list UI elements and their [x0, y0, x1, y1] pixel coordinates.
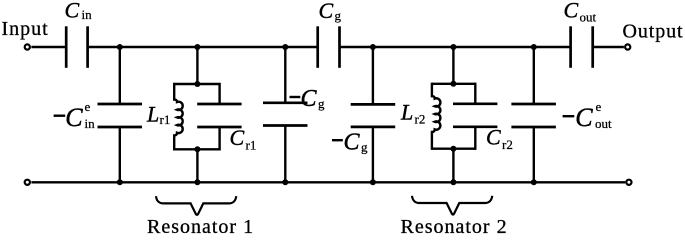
svg-text:r1: r1	[246, 138, 257, 153]
capacitor -C_in^e	[98, 104, 143, 127]
wire left -C_g branch lower	[284, 126, 286, 183]
inductor L_r1	[174, 83, 182, 151]
label C_r2	[486, 125, 513, 153]
node resonator 1 loop top	[194, 81, 200, 87]
wire resonator 2 right stub upper	[474, 83, 476, 104]
svg-text:Resonator 2: Resonator 2	[401, 216, 508, 236]
svg-text:e: e	[596, 99, 602, 114]
svg-text:C: C	[301, 86, 318, 112]
svg-text:in: in	[85, 116, 96, 131]
label C_g	[319, 0, 342, 23]
node top of left -C_g branch	[282, 44, 288, 50]
wire resonator 2 to bottom rail	[452, 149, 454, 183]
wire resonator 1 loop bottom	[174, 148, 219, 150]
node resonator 1 loop bottom	[194, 146, 200, 152]
svg-text:e: e	[85, 99, 91, 114]
wire -C_out branch lower	[533, 127, 535, 182]
svg-text:r2: r2	[502, 137, 513, 152]
label C_r1	[230, 125, 257, 153]
wire resonator 1 feed	[196, 47, 198, 84]
wire top rail C_in to C_g	[88, 46, 318, 48]
svg-text:L: L	[400, 100, 413, 125]
node top of -C_in branch	[117, 44, 123, 50]
wire resonator 1 loop top	[174, 83, 219, 85]
node bottom of -C_out branch	[531, 179, 537, 185]
svg-text:r2: r2	[415, 112, 426, 127]
label -C_g left	[290, 86, 326, 112]
svg-text:r1: r1	[160, 112, 171, 127]
capacitor -C_g right	[351, 104, 396, 127]
node top of resonator 1	[194, 44, 200, 50]
label -C_out^e	[563, 99, 612, 132]
wire resonator 1 right stub upper	[218, 83, 220, 104]
node resonator 1 bottom junction	[194, 179, 200, 185]
wire C_out to output	[593, 46, 624, 48]
capacitor C_r2	[453, 104, 497, 127]
brace resonator 2	[412, 196, 492, 215]
svg-text:C: C	[344, 130, 361, 156]
svg-text:C: C	[319, 0, 334, 23]
capacitor C_in	[66, 26, 87, 68]
terminal bottom-right node	[626, 180, 631, 185]
wire resonator 1 right stub lower	[218, 127, 220, 151]
wire bottom rail	[31, 181, 625, 183]
terminal bottom-left node	[25, 180, 30, 185]
svg-text:C: C	[230, 125, 245, 150]
node resonator 2 bottom junction	[450, 179, 456, 185]
svg-text:g: g	[318, 96, 325, 111]
wire -C_out branch upper	[533, 47, 535, 104]
label -C_in^e	[54, 99, 96, 132]
wire right -C_g branch upper	[372, 47, 374, 104]
wire resonator 1 to bottom rail	[196, 149, 198, 182]
wire resonator 2 feed	[452, 47, 454, 84]
capacitor C_r1	[197, 104, 241, 127]
label -C_g right	[332, 130, 368, 156]
capacitor C_out	[571, 26, 593, 68]
svg-text:Resonator 1: Resonator 1	[147, 216, 254, 236]
node resonator 2 loop bottom	[450, 146, 456, 152]
node resonator 2 loop top	[450, 81, 456, 87]
wire top rail C_g to C_out	[340, 46, 571, 48]
node bottom of right -C_g branch	[370, 179, 376, 185]
svg-text:g: g	[361, 140, 368, 155]
capacitor -C_out^e	[511, 104, 556, 127]
svg-text:C: C	[564, 0, 579, 22]
label C_in	[65, 0, 93, 22]
node top of -C_out branch	[531, 44, 537, 50]
label C_out	[564, 0, 597, 25]
node bottom of left -C_g branch	[282, 179, 288, 185]
svg-text:in: in	[82, 7, 93, 22]
label L_r1	[146, 101, 170, 127]
capacitor -C_g left	[263, 103, 308, 126]
inductor L_r2	[432, 83, 440, 150]
node bottom of -C_in branch	[117, 179, 123, 185]
wire left -C_g branch upper	[284, 47, 286, 103]
label L_r2	[400, 100, 425, 127]
node top of resonator 2	[450, 44, 456, 50]
svg-text:C: C	[486, 125, 501, 150]
wire resonator 2 right stub lower	[474, 127, 476, 150]
terminal output node	[625, 44, 630, 49]
wire right -C_g branch lower	[372, 127, 374, 182]
wire input to C_in	[31, 46, 66, 48]
svg-text:C: C	[575, 103, 593, 132]
svg-text:out: out	[595, 116, 612, 131]
terminal input node	[25, 44, 30, 49]
svg-text:C: C	[65, 103, 83, 132]
svg-text:g: g	[335, 8, 342, 23]
wire resonator 2 loop bottom	[432, 147, 475, 149]
svg-text:C: C	[65, 0, 80, 22]
capacitor C_g	[318, 26, 340, 68]
brace resonator 1	[156, 196, 236, 215]
svg-text:L: L	[146, 101, 159, 126]
wire -C_in branch lower	[119, 127, 121, 182]
svg-text:Output: Output	[623, 21, 684, 43]
svg-text:Input: Input	[2, 18, 49, 40]
svg-text:out: out	[580, 10, 597, 25]
wire resonator 2 loop top	[432, 83, 475, 85]
wire -C_in branch upper	[119, 47, 121, 104]
node top of right -C_g branch	[370, 44, 376, 50]
